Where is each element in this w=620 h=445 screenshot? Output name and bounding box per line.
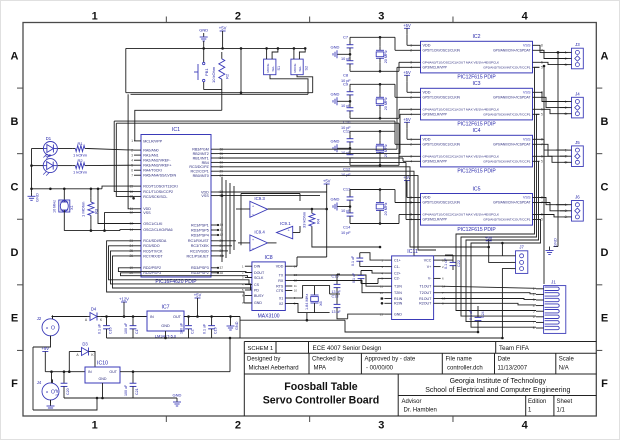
svg-text:GND: GND xyxy=(553,238,558,247)
svg-text:N/A: N/A xyxy=(559,365,569,371)
svg-text:CTS: CTS xyxy=(276,289,284,293)
svg-text:42: 42 xyxy=(220,233,224,237)
svg-text:+5V: +5V xyxy=(403,117,411,122)
svg-text:GP5/T1CKI/OSC1/CLKIN: GP5/T1CKI/OSC1/CLKIN xyxy=(423,201,461,205)
svg-text:RA0/AN0: RA0/AN0 xyxy=(143,149,158,153)
svg-text:GP3/MCLR/VPP: GP3/MCLR/VPP xyxy=(423,65,448,69)
svg-text:D4: D4 xyxy=(91,307,97,312)
svg-text:GP0/AN0/CIN+/ICSPDAT: GP0/AN0/CIN+/ICSPDAT xyxy=(493,96,530,100)
svg-text:5: 5 xyxy=(541,218,543,222)
svg-text:1 kOhm: 1 kOhm xyxy=(73,153,88,158)
svg-text:4: 4 xyxy=(522,11,529,23)
svg-text:100 uF: 100 uF xyxy=(124,322,128,334)
svg-text:RC7/RX/DT: RC7/RX/DT xyxy=(143,254,163,258)
svg-text:C21: C21 xyxy=(135,388,139,395)
svg-text:C2: C2 xyxy=(191,329,195,334)
svg-text:MPA: MPA xyxy=(314,365,327,371)
svg-text:PIC12F615 PDIP: PIC12F615 PDIP xyxy=(457,169,496,175)
svg-text:Edition: Edition xyxy=(528,399,546,405)
svg-text:RTS: RTS xyxy=(276,284,284,288)
svg-text:J6: J6 xyxy=(575,195,580,200)
svg-text:SCHEM 1: SCHEM 1 xyxy=(248,346,274,352)
svg-text:0.1 uF: 0.1 uF xyxy=(352,272,356,283)
svg-text:C20: C20 xyxy=(66,388,70,395)
svg-text:R2IN: R2IN xyxy=(394,302,403,306)
svg-text:D: D xyxy=(601,247,609,259)
svg-text:MAX3100: MAX3100 xyxy=(258,314,280,320)
svg-text:Approved by - date: Approved by - date xyxy=(365,357,416,363)
svg-text:IC11: IC11 xyxy=(407,249,418,255)
svg-text:IC9.4: IC9.4 xyxy=(254,229,265,234)
svg-text:10 pF: 10 pF xyxy=(341,231,351,235)
svg-text:0.1 uF: 0.1 uF xyxy=(351,255,355,266)
svg-text:J3: J3 xyxy=(575,42,580,47)
svg-text:RC1/RXUST: RC1/RXUST xyxy=(188,239,210,243)
svg-text:C16: C16 xyxy=(109,327,113,334)
svg-text:+9V: +9V xyxy=(485,235,493,240)
svg-text:MODE: MODE xyxy=(266,64,270,73)
svg-text:controller.dch: controller.dch xyxy=(447,365,483,371)
svg-text:VSS: VSS xyxy=(523,90,531,94)
svg-text:J4: J4 xyxy=(37,380,42,385)
svg-text:R1IN: R1IN xyxy=(394,297,403,301)
svg-text:T1OUT: T1OUT xyxy=(420,285,433,289)
svg-text:IC7: IC7 xyxy=(161,305,169,311)
svg-text:1/1: 1/1 xyxy=(557,408,566,414)
svg-text:13 uF: 13 uF xyxy=(332,310,342,314)
svg-text:SEL: SEL xyxy=(298,65,302,71)
svg-text:GP0/AN0/CIN+/ICSPDAT: GP0/AN0/CIN+/ICSPDAT xyxy=(493,143,530,147)
svg-text:Dr. Hamblen: Dr. Hamblen xyxy=(404,408,437,414)
svg-text:RC3/SCK/SCL: RC3/SCK/SCL xyxy=(143,195,167,199)
svg-text:+5V: +5V xyxy=(194,293,202,298)
svg-text:MODE: MODE xyxy=(293,64,297,73)
svg-text:Servo Controller Board: Servo Controller Board xyxy=(263,395,380,407)
svg-text:OSC1/CLKI: OSC1/CLKI xyxy=(143,222,162,226)
svg-text:X1: X1 xyxy=(70,205,74,210)
svg-text:GP2/AN2/T0CKI/INT/COUT/CCP1: GP2/AN2/T0CKI/INT/COUT/CCP1 xyxy=(483,65,531,69)
svg-text:VSS: VSS xyxy=(143,211,151,215)
svg-text:C1: C1 xyxy=(135,329,139,334)
svg-text:A: A xyxy=(601,50,609,62)
svg-text:3: 3 xyxy=(533,298,535,302)
svg-text:RD3/PSP5: RD3/PSP5 xyxy=(191,228,209,232)
svg-text:Date: Date xyxy=(498,357,511,363)
svg-text:Michael Aeberhard: Michael Aeberhard xyxy=(249,365,299,371)
svg-text:GP5/T1CKI/OSC1/CLKIN: GP5/T1CKI/OSC1/CLKIN xyxy=(423,96,461,100)
svg-text:5: 5 xyxy=(541,66,543,70)
svg-text:O: O xyxy=(51,325,55,331)
svg-text:R1OUT: R1OUT xyxy=(419,297,432,301)
svg-text:1 kOhm: 1 kOhm xyxy=(73,170,88,175)
svg-text:2: 2 xyxy=(533,293,535,297)
svg-text:BUSY: BUSY xyxy=(254,294,264,298)
svg-text:R2: R2 xyxy=(77,158,83,163)
svg-text:RC6/TX/CK: RC6/TX/CK xyxy=(143,249,163,253)
svg-text:E: E xyxy=(11,313,18,325)
svg-text:T2OUT: T2OUT xyxy=(420,291,433,295)
svg-text:GP3/MCLR/VPP: GP3/MCLR/VPP xyxy=(423,218,448,222)
svg-text:B: B xyxy=(601,116,609,128)
svg-text:RC3/PSP1: RC3/PSP1 xyxy=(191,223,209,227)
svg-text:X2: X2 xyxy=(279,302,283,306)
svg-text:C7: C7 xyxy=(343,34,349,39)
svg-text:GP4/AN3/T1G/OSC2/CLKOUT MAX V: GP4/AN3/T1G/OSC2/CLKOUT MAX VE/1N-/4E/SP… xyxy=(423,60,501,64)
svg-text:RB3/PGM: RB3/PGM xyxy=(192,148,209,152)
svg-text:J2: J2 xyxy=(37,316,42,321)
svg-text:RB2/INT2: RB2/INT2 xyxy=(193,152,209,156)
svg-text:+5V: +5V xyxy=(219,26,227,31)
svg-text:1 MOhm: 1 MOhm xyxy=(81,201,86,217)
svg-text:RC1/PSKJET: RC1/PSKJET xyxy=(186,254,209,258)
svg-text:5: 5 xyxy=(541,160,543,164)
svg-text:S2: S2 xyxy=(304,66,308,71)
svg-text:GND: GND xyxy=(161,324,170,328)
svg-text:5: 5 xyxy=(541,113,543,117)
svg-text:OUT: OUT xyxy=(109,370,117,374)
svg-text:RA1/AN1: RA1/AN1 xyxy=(143,154,158,158)
svg-text:IC5: IC5 xyxy=(472,186,480,192)
svg-text:3: 3 xyxy=(378,420,384,432)
svg-text:GP2/AN2/T0CKI/INT/COUT/CCP1: GP2/AN2/T0CKI/INT/COUT/CCP1 xyxy=(483,218,531,222)
svg-text:C14: C14 xyxy=(343,225,351,230)
svg-text:IN: IN xyxy=(150,315,154,319)
svg-text:D: D xyxy=(11,247,19,259)
svg-text:GND: GND xyxy=(331,91,340,96)
svg-text:C19: C19 xyxy=(214,327,218,334)
svg-text:GP3/MCLR/VPP: GP3/MCLR/VPP xyxy=(423,159,448,163)
svg-text:GP0/AN0/CIN+/ICSPDAT: GP0/AN0/CIN+/ICSPDAT xyxy=(493,201,530,205)
svg-text:4: 4 xyxy=(522,420,529,432)
svg-text:RA5/AN4/SS/LVDIN: RA5/AN4/SS/LVDIN xyxy=(143,174,176,178)
svg-text:20 MHz: 20 MHz xyxy=(384,97,388,110)
svg-text:10 kOhm: 10 kOhm xyxy=(211,66,216,83)
svg-text:RC3/TXEK: RC3/TXEK xyxy=(191,244,210,248)
svg-text:GP5/T1CKI/OSC1/CLKIN: GP5/T1CKI/OSC1/CLKIN xyxy=(423,49,461,53)
svg-text:8: 8 xyxy=(541,44,543,48)
svg-text:IN: IN xyxy=(88,370,92,374)
svg-text:IC2: IC2 xyxy=(472,34,480,40)
svg-text:20 MHz: 20 MHz xyxy=(384,202,388,215)
svg-text:33 kOhm: 33 kOhm xyxy=(301,211,306,228)
svg-text:IC9.1: IC9.1 xyxy=(280,221,291,226)
svg-text:20 MHz: 20 MHz xyxy=(384,144,388,157)
svg-text:11/13/2007: 11/13/2007 xyxy=(498,365,528,371)
svg-text:RC2/CCP1: RC2/CCP1 xyxy=(191,170,209,174)
svg-text:DIN: DIN xyxy=(254,265,261,269)
svg-text:C9: C9 xyxy=(343,81,349,86)
svg-text:+5V: +5V xyxy=(403,70,411,75)
svg-text:11: 11 xyxy=(380,284,383,288)
svg-text:VSS: VSS xyxy=(523,43,531,47)
svg-text:Designed by: Designed by xyxy=(247,357,280,363)
svg-text:RC3/DC/PZ: RC3/DC/PZ xyxy=(189,165,209,169)
svg-text:GP4/AN3/T1G/OSC2/CLKOUT MAX V: GP4/AN3/T1G/OSC2/CLKOUT MAX VE/1N-/4E/SP… xyxy=(423,107,501,111)
svg-text:IC9.3: IC9.3 xyxy=(254,196,265,201)
svg-text:1: 1 xyxy=(92,11,98,23)
svg-text:10 pF: 10 pF xyxy=(341,173,351,177)
svg-text:Team FIFA: Team FIFA xyxy=(499,345,530,352)
svg-text:R4: R4 xyxy=(316,218,321,224)
svg-text:RD3/PSP3: RD3/PSP3 xyxy=(191,266,209,270)
svg-text:RB0/INT0: RB0/INT0 xyxy=(193,174,209,178)
svg-text:GND: GND xyxy=(254,301,262,305)
svg-text:VCC: VCC xyxy=(424,258,432,262)
svg-text:F: F xyxy=(11,378,18,390)
svg-text:GND: GND xyxy=(331,44,340,49)
svg-text:V+: V+ xyxy=(427,265,432,269)
svg-text:1.84 MHz: 1.84 MHz xyxy=(305,294,309,310)
svg-text:IC10: IC10 xyxy=(97,361,108,367)
svg-text:J4: J4 xyxy=(575,91,580,96)
svg-text:GP2/AN2/T0CKI/INT/COUT/CCP1: GP2/AN2/T0CKI/INT/COUT/CCP1 xyxy=(483,159,531,163)
svg-text:3: 3 xyxy=(378,11,384,23)
svg-text:6: 6 xyxy=(131,168,133,172)
svg-text:41: 41 xyxy=(220,228,224,232)
svg-text:C: C xyxy=(11,181,19,193)
svg-text:1: 1 xyxy=(533,287,535,291)
svg-text:ECE 4007 Senior Design: ECE 4007 Senior Design xyxy=(313,345,382,352)
svg-text:GND: GND xyxy=(235,321,239,330)
svg-text:RC0/T1OSO/T13CKI: RC0/T1OSO/T13CKI xyxy=(143,185,177,189)
svg-text:File name: File name xyxy=(446,357,473,363)
svg-text:T2IN: T2IN xyxy=(394,291,402,295)
svg-text:10: 10 xyxy=(294,289,298,293)
svg-text:GND: GND xyxy=(394,312,402,316)
svg-text:1 uF: 1 uF xyxy=(55,388,59,396)
svg-text:D1: D1 xyxy=(46,136,52,141)
svg-text:CS: CS xyxy=(254,283,260,287)
svg-text:T1IN: T1IN xyxy=(394,285,402,289)
svg-text:GND: GND xyxy=(35,193,40,202)
svg-text:IC3: IC3 xyxy=(472,81,480,87)
svg-text:PIC12F615 PDIP: PIC12F615 PDIP xyxy=(457,122,496,128)
svg-text:C: C xyxy=(601,181,609,193)
svg-text:GND: GND xyxy=(199,28,208,33)
svg-text:IC8: IC8 xyxy=(265,255,273,261)
svg-text:5: 5 xyxy=(533,309,535,313)
svg-text:RC1/T1OSI/CCP2: RC1/T1OSI/CCP2 xyxy=(143,190,173,194)
svg-text:R2: R2 xyxy=(225,73,230,79)
svg-text:RC4/SDI/SDA: RC4/SDI/SDA xyxy=(143,239,167,243)
svg-text:RD2/PSP2: RD2/PSP2 xyxy=(143,266,161,270)
svg-text:GND: GND xyxy=(331,138,340,143)
svg-text:Foosball Table: Foosball Table xyxy=(284,381,357,393)
svg-text:RB4: RB4 xyxy=(202,161,209,165)
svg-text:0.1 uF: 0.1 uF xyxy=(444,258,448,269)
svg-text:GP4/AN3/T1G/OSC2/CLKOUT MAX V: GP4/AN3/T1G/OSC2/CLKOUT MAX VE/1N-/4E/SP… xyxy=(423,154,501,158)
svg-text:4: 4 xyxy=(131,158,133,162)
svg-text:+5V: +5V xyxy=(403,23,411,28)
svg-text:GND: GND xyxy=(99,377,107,381)
svg-text:2: 2 xyxy=(235,420,241,432)
svg-text:F: F xyxy=(601,378,608,390)
svg-text:100 uF: 100 uF xyxy=(124,384,128,396)
svg-text:10 MHz: 10 MHz xyxy=(53,200,57,213)
svg-text:PB1: PB1 xyxy=(204,68,209,76)
svg-text:3: 3 xyxy=(131,153,133,157)
svg-text:1: 1 xyxy=(92,420,98,432)
svg-text:IC1: IC1 xyxy=(172,127,180,133)
svg-text:1: 1 xyxy=(131,139,133,143)
svg-text:0.1 uF: 0.1 uF xyxy=(469,309,473,320)
svg-text:D2: D2 xyxy=(46,153,52,158)
svg-text:E: E xyxy=(601,313,608,325)
svg-text:SEL: SEL xyxy=(271,65,275,71)
svg-text:Checked by: Checked by xyxy=(312,357,344,363)
svg-text:TX: TX xyxy=(279,273,284,277)
svg-text:RB1/INT1: RB1/INT1 xyxy=(193,156,209,160)
svg-text:GP3/MCLR/VPP: GP3/MCLR/VPP xyxy=(423,112,448,116)
svg-text:A: A xyxy=(11,50,19,62)
svg-text:VDD: VDD xyxy=(423,137,431,141)
svg-text:Scale: Scale xyxy=(559,357,575,363)
svg-text:+5V: +5V xyxy=(323,179,331,184)
svg-text:SCLK: SCLK xyxy=(254,276,264,280)
svg-text:X6: X6 xyxy=(319,301,323,306)
svg-text:OSC2/CLKO/RA6: OSC2/CLKO/RA6 xyxy=(143,228,172,232)
svg-text:C24: C24 xyxy=(481,311,485,318)
svg-text:+9V: +9V xyxy=(42,346,50,351)
svg-text:J1: J1 xyxy=(551,280,556,285)
svg-text:RX: RX xyxy=(278,279,284,283)
svg-text:School of Electrical and Compu: School of Electrical and Computer Engine… xyxy=(425,387,570,394)
svg-text:VSS: VSS xyxy=(523,137,531,141)
svg-text:PD: PD xyxy=(254,288,259,292)
svg-text:100 uF: 100 uF xyxy=(180,322,184,334)
svg-text:RC2/VSDD: RC2/VSDD xyxy=(190,249,209,253)
svg-text:Advisor: Advisor xyxy=(402,399,422,405)
svg-text:VDD: VDD xyxy=(423,90,431,94)
svg-text:PIC12F615 PDIP: PIC12F615 PDIP xyxy=(457,227,496,233)
svg-text:R2OUT: R2OUT xyxy=(419,302,432,306)
svg-text:J5: J5 xyxy=(575,140,580,145)
svg-text:GP0/AN0/CIN+/ICSPDAT: GP0/AN0/CIN+/ICSPDAT xyxy=(493,49,530,53)
svg-text:11: 11 xyxy=(294,284,297,288)
svg-text:7: 7 xyxy=(131,173,133,177)
svg-text:X1: X1 xyxy=(279,296,283,300)
svg-text:4: 4 xyxy=(533,304,535,308)
svg-text:0.1 uF: 0.1 uF xyxy=(203,323,207,334)
svg-text:RA2/AN2/VREF-: RA2/AN2/VREF- xyxy=(143,159,171,163)
svg-text:C22: C22 xyxy=(457,260,461,267)
svg-text:0.1 uF: 0.1 uF xyxy=(98,323,102,334)
svg-text:C2-: C2- xyxy=(394,277,401,281)
svg-text:OUT: OUT xyxy=(173,315,182,319)
svg-text:VSS: VSS xyxy=(201,194,209,198)
svg-text:GND: GND xyxy=(173,393,182,398)
svg-text:40: 40 xyxy=(220,223,224,227)
svg-text:DOUT: DOUT xyxy=(254,271,265,275)
svg-text:GND: GND xyxy=(331,197,340,202)
svg-text:10: 10 xyxy=(380,291,384,295)
svg-text:37: 37 xyxy=(220,266,224,270)
svg-text:R1: R1 xyxy=(77,141,83,146)
svg-text:J7: J7 xyxy=(519,245,524,250)
svg-text:MCLR/VPP: MCLR/VPP xyxy=(143,139,162,143)
svg-text:VDD: VDD xyxy=(423,196,431,200)
svg-text:S1: S1 xyxy=(277,66,281,71)
svg-text:C1-: C1- xyxy=(394,265,401,269)
svg-text:+12V: +12V xyxy=(119,297,129,302)
svg-text:C2+: C2+ xyxy=(394,271,401,275)
svg-text:RC5/SDO: RC5/SDO xyxy=(143,244,160,248)
svg-text:C8: C8 xyxy=(343,72,349,77)
svg-text:Georgia Institute of Technolog: Georgia Institute of Technology xyxy=(450,378,547,385)
svg-text:VDD: VDD xyxy=(276,265,284,269)
svg-text:Sheet: Sheet xyxy=(557,399,573,405)
svg-text:GP4/AN3/T1G/OSC2/CLKOUT MAX V: GP4/AN3/T1G/OSC2/CLKOUT MAX VE/1N-/4E/SP… xyxy=(423,213,501,217)
svg-text:13 uF: 13 uF xyxy=(332,290,342,294)
svg-text:RA3/AN3/VREF+: RA3/AN3/VREF+ xyxy=(143,164,171,168)
svg-text:2: 2 xyxy=(235,11,241,23)
svg-text:GP2/AN2/T0CKI/INT/COUT/CCP1: GP2/AN2/T0CKI/INT/COUT/CCP1 xyxy=(483,112,531,116)
svg-text:20 MHz: 20 MHz xyxy=(384,50,388,63)
svg-text:PIC12F615 PDIP: PIC12F615 PDIP xyxy=(457,75,496,81)
svg-text:RA4/T0CKI: RA4/T0CKI xyxy=(143,169,162,173)
svg-text:VDD: VDD xyxy=(423,43,431,47)
svg-text:RD3/PSP4: RD3/PSP4 xyxy=(191,233,209,237)
svg-text:IC4: IC4 xyxy=(472,128,480,134)
svg-text:C1+: C1+ xyxy=(394,258,401,262)
svg-text:- 00/00/00: - 00/00/00 xyxy=(366,365,394,371)
svg-text:GP5/T1CKI/OSC1/CLKIN: GP5/T1CKI/OSC1/CLKIN xyxy=(423,143,461,147)
svg-text:D3: D3 xyxy=(82,342,88,347)
svg-text:B: B xyxy=(11,116,19,128)
svg-text:VSS: VSS xyxy=(523,196,531,200)
